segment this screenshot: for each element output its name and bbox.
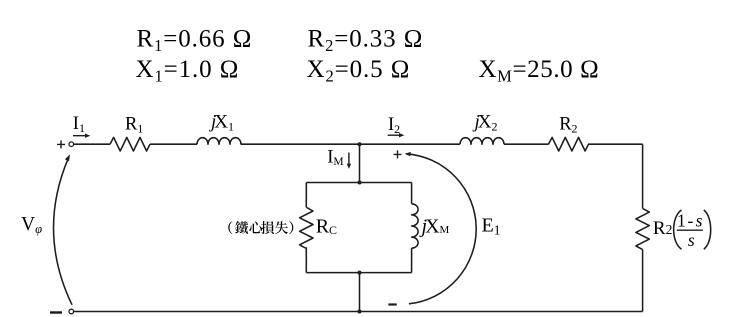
svg-text:R2: R2 [559,114,577,135]
svg-text:E1: E1 [482,214,501,237]
svg-text:I2: I2 [388,115,400,136]
svg-text:RC: RC [316,216,337,238]
svg-text:R1: R1 [125,114,143,135]
svg-text:s: s [688,230,695,250]
svg-text:jX1: jX1 [208,111,234,133]
svg-text:I1: I1 [73,114,85,135]
svg-text:XM=25.0 Ω: XM=25.0 Ω [479,56,600,86]
svg-text:R1=0.66 Ω: R1=0.66 Ω [137,25,253,55]
svg-text:R2=0.33 Ω: R2=0.33 Ω [308,25,424,55]
svg-text:Vφ: Vφ [21,214,42,236]
svg-text:jXM: jXM [419,216,450,238]
svg-text:1-s: 1-s [677,210,703,230]
svg-text:IM: IM [327,148,343,168]
svg-text:jX2: jX2 [472,111,498,133]
svg-text:X1=1.0 Ω: X1=1.0 Ω [136,56,240,86]
svg-text:X2=0.5 Ω: X2=0.5 Ω [307,56,411,86]
svg-text:R2: R2 [653,218,672,239]
